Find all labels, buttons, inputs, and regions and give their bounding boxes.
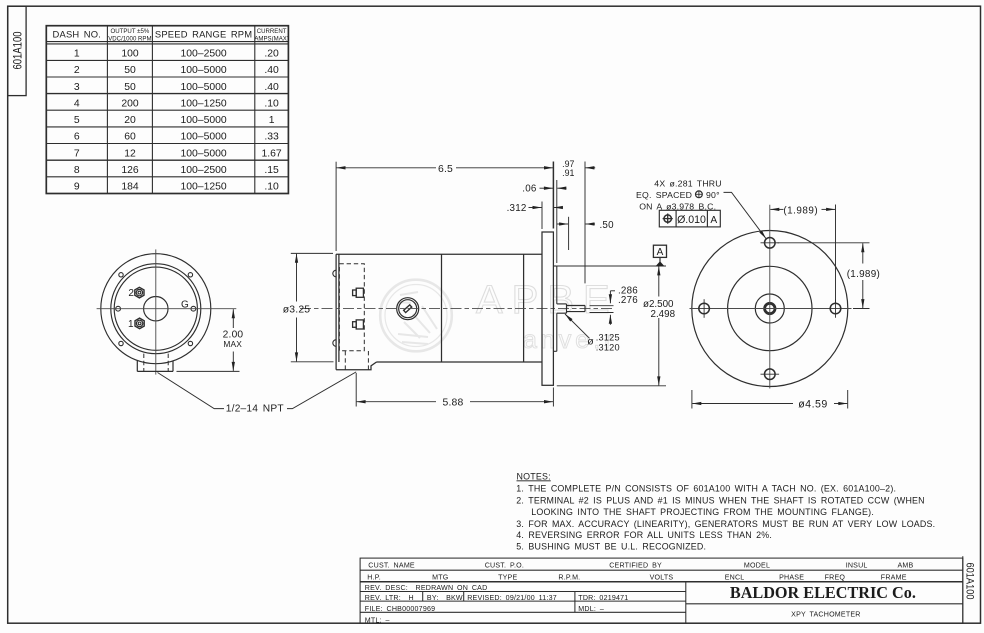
svg-text:(1.989): (1.989) xyxy=(783,206,818,217)
svg-text:9: 9 xyxy=(74,182,80,193)
title block xyxy=(360,556,963,623)
svg-text:50: 50 xyxy=(124,82,136,93)
svg-text:Ø.010: Ø.010 xyxy=(677,214,706,226)
svg-text:90°: 90° xyxy=(706,190,720,200)
svg-text:OUTPUT ±5%: OUTPUT ±5% xyxy=(111,28,150,35)
svg-text:.06: .06 xyxy=(522,184,537,195)
svg-text:.312: .312 xyxy=(507,203,527,214)
svg-text:R.P.M.: R.P.M. xyxy=(558,574,580,582)
leader dia .3125/.3120 xyxy=(565,314,590,338)
svg-text:MDL: –: MDL: – xyxy=(578,605,604,613)
svg-text:PHASE: PHASE xyxy=(779,574,804,582)
svg-text:4X ø.281 THRU: 4X ø.281 THRU xyxy=(654,178,721,188)
svg-text:FREQ: FREQ xyxy=(825,574,846,582)
datum A flag xyxy=(653,245,666,266)
rear view bolt holes xyxy=(116,273,196,346)
svg-text:100–5000: 100–5000 xyxy=(180,82,226,93)
title block row 1 labels xyxy=(368,562,913,570)
svg-text:7: 7 xyxy=(74,148,80,159)
svg-text:.40: .40 xyxy=(264,82,279,93)
svg-text:ø3.25: ø3.25 xyxy=(283,305,311,316)
svg-text:AMB: AMB xyxy=(898,562,914,570)
side view centerline xyxy=(300,307,614,309)
dimension dia 2.500/2.498 xyxy=(557,266,666,386)
svg-text:2: 2 xyxy=(128,288,134,299)
svg-text:AMPS(MAX): AMPS(MAX) xyxy=(254,35,289,42)
svg-text:3. FOR MAX. ACCURACY (LINEARIT: 3. FOR MAX. ACCURACY (LINEARITY), GENERA… xyxy=(516,519,935,529)
NPT hidden lines in foot xyxy=(344,351,346,370)
svg-text:100–5000: 100–5000 xyxy=(180,65,226,76)
dimension 2.00 MAX xyxy=(177,309,240,371)
terminal box hidden lines xyxy=(339,264,364,351)
svg-text:DASH NO.: DASH NO. xyxy=(53,28,102,39)
svg-text:.3120: .3120 xyxy=(596,342,620,352)
dimension .312 xyxy=(529,202,563,230)
motor body outline xyxy=(336,254,542,370)
svg-text:CURRENT: CURRENT xyxy=(257,28,287,35)
svg-text:TYPE: TYPE xyxy=(498,574,517,582)
sheet number box top-left xyxy=(8,6,26,95)
svg-text:20: 20 xyxy=(124,115,136,126)
svg-text:.33: .33 xyxy=(264,132,279,143)
svg-text:VOLTS: VOLTS xyxy=(650,574,674,582)
svg-text:MODEL: MODEL xyxy=(744,562,770,570)
svg-text:BY: BKW: BY: BKW xyxy=(427,594,463,602)
svg-text:100: 100 xyxy=(121,49,139,60)
svg-text:200: 200 xyxy=(121,98,139,109)
svg-text:REV. LTR: H: REV. LTR: H xyxy=(365,594,414,602)
svg-text:.10: .10 xyxy=(264,98,279,109)
title block revision rows xyxy=(365,584,629,624)
dimension 5.88 xyxy=(356,373,553,407)
svg-text:.15: .15 xyxy=(264,165,279,176)
svg-text:ø4.59: ø4.59 xyxy=(798,398,828,410)
svg-text:100–5000: 100–5000 xyxy=(180,132,226,143)
flange bolt holes xyxy=(699,238,841,380)
dimension dia 3.25 xyxy=(291,253,334,361)
svg-text:.276: .276 xyxy=(618,295,638,306)
rear view outer circles xyxy=(101,254,211,364)
svg-text:184: 184 xyxy=(121,182,139,193)
shaft xyxy=(557,304,585,313)
screw heads left edge xyxy=(333,270,336,277)
svg-text:INSUL: INSUL xyxy=(846,562,868,570)
svg-text:2.498: 2.498 xyxy=(651,309,676,320)
pilot boss xyxy=(553,266,556,351)
svg-text:(1.989): (1.989) xyxy=(847,269,880,280)
svg-text:.91: .91 xyxy=(562,168,574,178)
dimension .286/.276 xyxy=(590,291,616,325)
svg-text:MTG: MTG xyxy=(432,574,448,582)
svg-text:.50: .50 xyxy=(600,220,615,231)
dimension dia 4.59 xyxy=(692,390,848,409)
svg-text:H.P.: H.P. xyxy=(367,574,381,582)
title block row 2 labels xyxy=(367,574,906,582)
svg-text:100–2500: 100–2500 xyxy=(180,49,226,60)
svg-text:4. REVERSING ERROR FOR ALL UNI: 4. REVERSING ERROR FOR ALL UNITS LESS TH… xyxy=(516,530,772,540)
dimension (1.989) top xyxy=(770,205,835,304)
svg-text:A: A xyxy=(657,247,664,258)
svg-text:ENCL: ENCL xyxy=(725,574,745,582)
svg-text:100–5000: 100–5000 xyxy=(180,148,226,159)
NPT boss on rear view xyxy=(137,354,173,372)
svg-text:601A100: 601A100 xyxy=(13,32,25,70)
dimension .50 xyxy=(557,217,595,250)
svg-text:601A100: 601A100 xyxy=(963,563,975,600)
svg-text:LOOKING INTO THE SHAFT PROJECT: LOOKING INTO THE SHAFT PROJECTING FROM T… xyxy=(531,507,874,517)
svg-text:50: 50 xyxy=(124,65,136,76)
leader 1/2-14 NPT xyxy=(158,372,357,409)
svg-text:126: 126 xyxy=(121,165,139,176)
hole note leader xyxy=(724,192,767,238)
svg-text:1: 1 xyxy=(269,115,275,126)
svg-text:NOTES:: NOTES: xyxy=(517,471,551,481)
svg-text:100–1250: 100–1250 xyxy=(180,98,226,109)
svg-text:100–2500: 100–2500 xyxy=(180,165,226,176)
svg-text:4: 4 xyxy=(74,98,80,109)
watermark logo circle xyxy=(380,280,452,352)
svg-text:EQ. SPACED: EQ. SPACED xyxy=(636,190,692,200)
svg-text:1/2–14 NPT: 1/2–14 NPT xyxy=(226,403,284,414)
svg-text:MTL: –: MTL: – xyxy=(365,616,390,624)
svg-text:CUST. NAME: CUST. NAME xyxy=(368,562,415,570)
flange circles xyxy=(692,231,848,387)
svg-text:6: 6 xyxy=(74,132,80,143)
terminal stud 1 xyxy=(135,318,144,329)
svg-text:A: A xyxy=(710,215,717,226)
svg-text:REV. DESC: REDRAWN ON CAD: REV. DESC: REDRAWN ON CAD xyxy=(365,584,488,592)
svg-text:5.88: 5.88 xyxy=(442,398,463,409)
flange centerlines xyxy=(690,308,852,310)
svg-text:XPY TACHOMETER: XPY TACHOMETER xyxy=(791,610,860,618)
svg-text:12: 12 xyxy=(124,148,136,159)
svg-text:.10: .10 xyxy=(264,182,279,193)
rear view centerlines xyxy=(97,308,237,310)
svg-text:1. THE COMPLETE P/N CONSISTS O: 1. THE COMPLETE P/N CONSISTS OF 601A100 … xyxy=(516,484,896,494)
svg-text:2. TERMINAL #2 IS PLUS AND #1: 2. TERMINAL #2 IS PLUS AND #1 IS MINUS W… xyxy=(516,495,924,505)
svg-text:.20: .20 xyxy=(264,49,279,60)
svg-text:5. BUSHING MUST BE U.L. RECOGN: 5. BUSHING MUST BE U.L. RECOGNIZED. xyxy=(516,542,706,552)
watermark text APBE xyxy=(476,278,619,354)
svg-text:6.5: 6.5 xyxy=(438,164,453,175)
svg-text:FRAME: FRAME xyxy=(881,574,907,582)
svg-text:60: 60 xyxy=(124,132,136,143)
svg-text:8: 8 xyxy=(74,165,80,176)
dimension (1.989) right xyxy=(778,243,870,309)
svg-text:2: 2 xyxy=(74,65,80,76)
dimension 6.5 xyxy=(336,162,553,251)
svg-text:CUST. P.O.: CUST. P.O. xyxy=(485,562,524,570)
center hub circle with slot xyxy=(397,298,419,320)
svg-text:5: 5 xyxy=(74,115,80,126)
svg-text:1: 1 xyxy=(128,319,134,330)
terminal studs side view xyxy=(353,288,364,329)
dimension .97/.91 xyxy=(553,162,595,284)
svg-text:ø: ø xyxy=(587,335,594,347)
svg-text:.3125: .3125 xyxy=(596,333,620,343)
notes xyxy=(516,471,935,551)
svg-text:1: 1 xyxy=(74,49,80,60)
svg-text:.40: .40 xyxy=(264,65,279,76)
svg-text:MAX: MAX xyxy=(223,339,242,349)
mounting flange plate xyxy=(542,232,553,385)
svg-text:SPEED RANGE RPM: SPEED RANGE RPM xyxy=(155,28,252,39)
table rows xyxy=(74,49,282,193)
svg-text:TDR: 0219471: TDR: 0219471 xyxy=(578,594,628,602)
svg-text:100–1250: 100–1250 xyxy=(180,182,226,193)
svg-text:CERTIFIED BY: CERTIFIED BY xyxy=(609,562,662,570)
feature control frame xyxy=(659,210,720,227)
dimension .06 xyxy=(540,180,567,263)
svg-text:3: 3 xyxy=(74,82,80,93)
svg-text:BALDOR ELECTRIC Co.: BALDOR ELECTRIC Co. xyxy=(730,583,916,602)
svg-text:100–5000: 100–5000 xyxy=(180,115,226,126)
svg-text:REVISED: 09/21/00 11:37: REVISED: 09/21/00 11:37 xyxy=(467,594,557,602)
svg-text:VDC/1000 RPM: VDC/1000 RPM xyxy=(108,35,151,42)
terminal stud 2 xyxy=(135,287,144,298)
svg-text:FILE: CHB00007969: FILE: CHB00007969 xyxy=(365,605,435,613)
data table xyxy=(46,26,289,194)
svg-text:APBE: APBE xyxy=(476,278,619,322)
svg-text:1.67: 1.67 xyxy=(261,148,281,159)
